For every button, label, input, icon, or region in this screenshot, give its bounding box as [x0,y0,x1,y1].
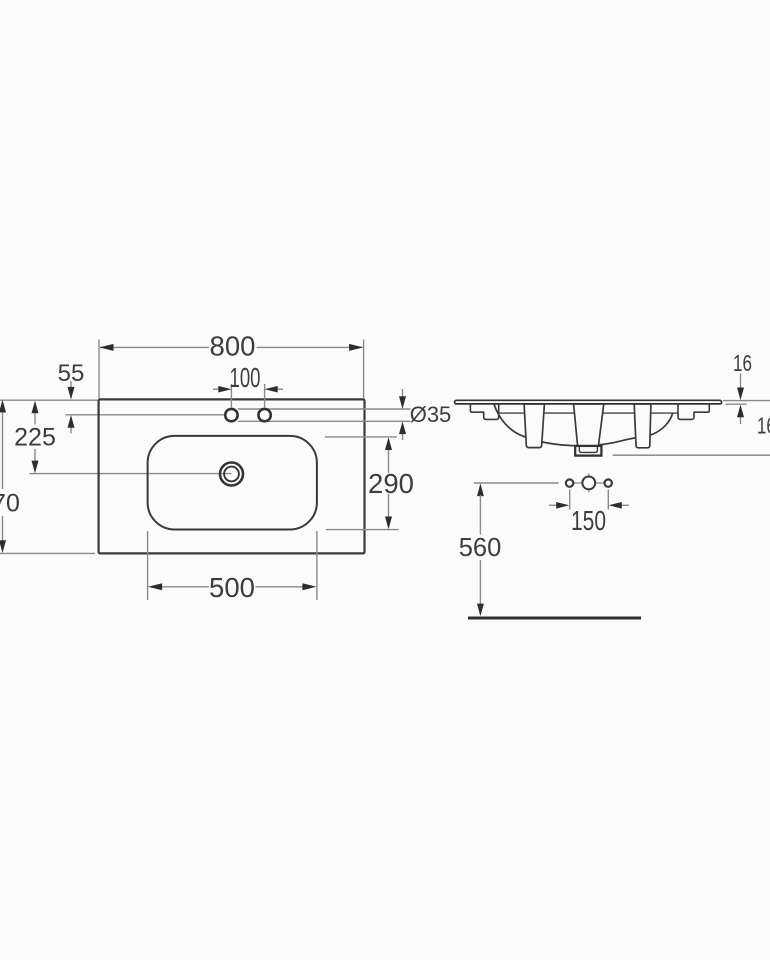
bowl back-rim line [497,412,678,414]
left fixing lug [524,404,544,448]
mounting hole vertical tick [588,473,590,492]
dimension Ø35 [399,389,451,440]
svg-text:55: 55 [58,360,85,387]
svg-text:560: 560 [459,534,502,562]
dimension 150 [549,490,629,537]
wire: drain centre line [30,473,232,475]
svg-text:800: 800 [210,331,256,362]
drain trap box [575,446,601,456]
svg-text:160: 160 [757,413,770,439]
svg-text:100: 100 [230,362,261,393]
bowl section curve [494,404,673,446]
basin rounded rectangle [148,436,317,530]
dimension 560 [459,483,559,616]
svg-text:150: 150 [571,505,606,536]
dimension 55 [58,360,85,434]
dimension 290 [325,437,414,530]
svg-text:500: 500 [209,572,255,603]
faucet hole right [258,409,270,421]
wire: extension line top edge to left [0,399,98,401]
svg-text:470: 470 [0,490,20,518]
mounting hole centre line [574,482,604,484]
svg-text:290: 290 [368,468,414,499]
leader line lower right (clipped) [613,454,770,456]
drain inner circle [224,467,239,482]
wire: hole tangent line lower [238,420,411,422]
dimension 500 [148,531,317,603]
drain outer circle [220,463,243,486]
dimension 100 [213,362,283,408]
countertop outer rectangle [99,399,365,553]
dimension 800 [99,331,364,399]
right mounting step [678,404,709,420]
dimension 225 [14,401,56,474]
left mounting step [470,404,498,420]
svg-text:Ø35: Ø35 [410,402,452,427]
svg-text:16: 16 [733,350,752,376]
right mounting hole [605,479,612,486]
wire: faucet-hole centre line extending left of basin [66,414,226,416]
countertop bar (section) [455,400,722,404]
svg-text:225: 225 [14,424,56,452]
floor line [468,617,641,620]
wire: bottom edge extension to left [0,552,95,554]
drain tab [574,404,604,446]
wire: hole tangent line upper (between and right of holes) [238,408,411,410]
dimension 470 (clipped at left edge) [0,400,20,553]
right fixing lug [634,404,651,448]
centre mounting hole [582,477,595,490]
drain trap box inner wall [579,446,597,452]
dimension 16 (top right) [723,350,770,424]
left mounting hole [566,479,573,486]
faucet hole left [225,409,237,421]
